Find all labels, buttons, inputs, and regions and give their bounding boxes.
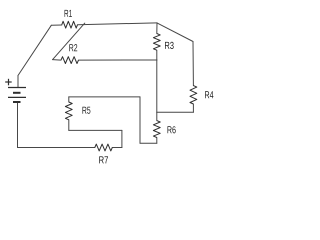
resistor R5 [65,102,72,120]
label R7 [99,156,108,163]
wire battery bottom lead [17,103,19,148]
resistor R2 [61,57,79,64]
wire R4 top lead [192,42,194,86]
wire R3 top node to R4 top (slant) [157,23,193,42]
wire riser up to R5 top wire [139,97,141,143]
wire R1 right junction to R2 left (slant) [53,23,85,60]
battery short plate 1 [13,92,21,94]
wire R3 bottom vertical run to R6 top node [156,50,158,112]
resistor R4 [190,86,197,104]
wire R2 left lead [53,59,61,62]
label R1 [65,10,72,17]
wire R4 bottom lead [192,104,194,112]
wire battery top lead [17,76,19,88]
wire battery- to R7 left (bottom) [18,147,95,149]
battery B1 plates [8,88,26,103]
wire R4 bottom to R6 top node [157,111,194,113]
label R3 [165,42,174,49]
wire R1 right to R3 top node [78,23,158,25]
resistor R1 [62,21,78,28]
resistor R3 [153,34,160,51]
wire battery+ to R1 left (slant) [18,25,51,75]
label R2 [69,44,77,51]
wire R5 top horizontal [69,96,140,98]
battery long plate 1 [8,87,26,89]
wire R5 bottom horizontal [69,129,122,131]
label R5 [82,107,90,114]
wire R5 top lead [68,97,70,102]
wire R1 left lead [51,24,62,26]
label R4 [205,91,213,98]
wire R6 bottom lead [156,138,158,144]
wire down to R7 right [121,130,123,147]
wire R6 bottom to left riser [140,142,157,144]
battery long plate 2 [8,96,26,98]
wire R2 right to R3 bottom junction [79,59,158,61]
wire R7 right lead [112,147,122,149]
resistor R6 [153,121,160,138]
resistor R7 [95,144,113,151]
wire R6 top lead [156,112,158,120]
wire R3 top lead [156,23,158,34]
battery + sign [5,79,12,86]
wire R5 bottom lead [68,120,70,131]
battery short plate 2 [13,101,21,103]
label R6 [167,126,175,133]
